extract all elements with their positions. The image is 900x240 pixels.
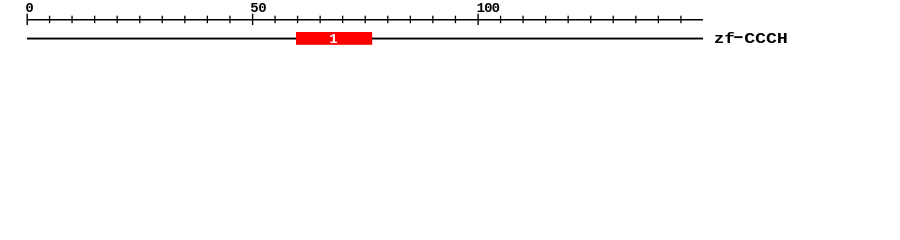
ruler minor ticks <box>49 16 682 24</box>
protein backbone line <box>27 38 703 40</box>
domain box (zf-CCCH hit 1) <box>296 32 372 45</box>
svg-text:50: 50 <box>250 1 266 17</box>
ruler major tick 0 <box>27 14 28 25</box>
ruler major tick 50 <box>252 14 253 25</box>
ruler axis line <box>27 19 703 21</box>
domain name label zf-CCCH <box>714 32 788 48</box>
svg-text:zf: zf <box>714 32 735 48</box>
svg-text:0: 0 <box>25 1 33 17</box>
svg-text:CCCH: CCCH <box>744 32 788 48</box>
svg-text:1: 1 <box>329 32 337 48</box>
svg-text:100: 100 <box>477 1 500 17</box>
ruler major tick 100 <box>477 14 478 25</box>
